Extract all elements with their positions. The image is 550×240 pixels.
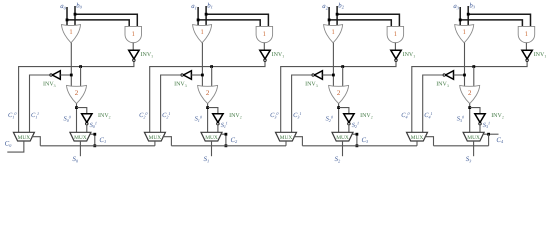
- wire b3 vertical: [467, 6, 469, 28]
- svg-text:S0: S0: [73, 156, 79, 163]
- wire INV3 input (bit 1): [191, 74, 202, 76]
- junction INV3 input (bit 0): [70, 74, 73, 77]
- svg-text:S31: S31: [483, 121, 490, 129]
- junction INV3 input (bit 1): [201, 74, 204, 77]
- wire sum mux select tap (bit 2): [352, 134, 357, 146]
- inverter INV2 (bit 3): [475, 114, 485, 123]
- junction b3: [467, 13, 470, 16]
- wire carry-in C0 to mux select: [7, 141, 24, 152]
- svg-text:C40: C40: [401, 111, 409, 119]
- wire INV3 output to carry mux (bit 1): [161, 75, 181, 132]
- wire INV3 input (bit 2): [322, 74, 333, 76]
- wire to INV2 (bit 0): [77, 108, 87, 114]
- svg-text:b2: b2: [338, 2, 344, 9]
- svg-text:S01: S01: [90, 121, 97, 129]
- mux sum (bit 3): [463, 132, 484, 141]
- wire sum mux select tap (bit 0): [90, 134, 95, 146]
- wire a3 branch to AND: [460, 20, 522, 28]
- wire and output (bit 3): [525, 43, 527, 51]
- wire xor1 output (bit 1): [201, 43, 203, 88]
- junction gate2 right input tap (bit 3): [472, 65, 475, 68]
- wire and output (bit 1): [263, 43, 265, 51]
- wire sum output S1: [211, 141, 213, 156]
- mux carry (bit 3): [407, 132, 428, 141]
- wire sum mux select tap (bit 1): [221, 134, 226, 146]
- junction tap corner (bit 0): [93, 133, 96, 136]
- svg-text:INV3: INV3: [305, 82, 318, 88]
- wire INV1 output to carry mux (bit 2): [281, 62, 396, 133]
- junction sum node (bit 3): [468, 106, 471, 109]
- svg-text:C2: C2: [231, 137, 239, 144]
- svg-text:1: 1: [263, 30, 267, 38]
- junction a2: [328, 19, 331, 22]
- inverter INV1 (bit 3): [522, 50, 532, 59]
- junction select on carry bus (bit 2): [356, 144, 359, 147]
- svg-text:1: 1: [69, 28, 73, 36]
- svg-text:INV3: INV3: [436, 82, 449, 88]
- junction b1: [205, 13, 208, 16]
- svg-text:1: 1: [331, 28, 335, 36]
- wire xor1 output (bit 3): [464, 43, 466, 88]
- wire carry mux output tap (bit 0): [32, 137, 41, 146]
- mux carry (bit 1): [144, 132, 165, 141]
- svg-text:1: 1: [462, 28, 466, 36]
- svg-text:MUX: MUX: [74, 135, 87, 141]
- svg-text:INV1: INV1: [272, 52, 285, 58]
- svg-text:C30: C30: [270, 111, 278, 119]
- wire INV3 output to carry mux (bit 0): [30, 75, 50, 132]
- svg-text:2: 2: [206, 89, 210, 97]
- wire INV3 output to carry mux (bit 3): [423, 75, 443, 132]
- wire to INV2 (bit 1): [208, 108, 218, 114]
- xor gate 1 (bit 3): [455, 25, 474, 43]
- svg-text:C1: C1: [99, 137, 106, 144]
- wire carry out C4 stub: [483, 133, 499, 135]
- xor gate 1 (bit 0): [62, 25, 81, 43]
- junction C4 tap: [487, 133, 490, 136]
- wire a2 branch to AND: [329, 20, 391, 28]
- wire to xor2 right input (bit 3): [473, 67, 475, 88]
- svg-text:MUX: MUX: [411, 135, 424, 141]
- svg-text:MUX: MUX: [467, 135, 480, 141]
- wire a1 branch to AND: [198, 20, 260, 28]
- wire xor2 output (bit 0): [76, 104, 78, 133]
- svg-text:C4: C4: [496, 137, 504, 144]
- svg-text:1: 1: [131, 30, 135, 38]
- wire b3 branch to AND: [468, 14, 530, 28]
- wire INV1 output to carry mux (bit 1): [150, 62, 265, 133]
- xor gate 2 (bit 3): [460, 85, 480, 103]
- svg-text:a0: a0: [60, 3, 66, 10]
- junction b2: [336, 13, 339, 16]
- wire sum output S3: [473, 141, 475, 156]
- svg-text:C3: C3: [362, 137, 370, 144]
- svg-text:INV2: INV2: [360, 113, 373, 119]
- junction gate2 right input tap (bit 1): [210, 65, 213, 68]
- and gate 1 (bit 0): [125, 26, 142, 42]
- wire INV3 input (bit 0): [60, 74, 71, 76]
- wire and output (bit 2): [394, 43, 396, 51]
- wire xor1 output (bit 0): [70, 43, 72, 88]
- mux carry (bit 2): [276, 132, 297, 141]
- svg-text:1: 1: [394, 30, 398, 38]
- svg-text:S11: S11: [221, 121, 228, 129]
- wire sum output S0: [79, 141, 81, 156]
- wire b0 vertical: [74, 6, 76, 28]
- svg-text:1: 1: [200, 28, 204, 36]
- svg-text:INV2: INV2: [229, 113, 242, 119]
- junction gate2 right input tap (bit 2): [341, 65, 344, 68]
- svg-text:a1: a1: [191, 3, 197, 10]
- svg-text:S3: S3: [466, 156, 472, 163]
- wire carry mux select stub (bit 3): [416, 141, 418, 146]
- wire carry mux output tap (bit 1): [163, 137, 172, 146]
- svg-text:MUX: MUX: [280, 135, 293, 141]
- wire b2 vertical: [336, 6, 338, 28]
- wire xor2 output (bit 1): [207, 104, 209, 133]
- wire a3 vertical: [459, 7, 461, 28]
- xor gate 2 (bit 2): [329, 85, 349, 103]
- svg-text:INV1: INV1: [141, 52, 154, 58]
- wire carry bus C1: [40, 145, 155, 147]
- svg-text:MUX: MUX: [149, 135, 162, 141]
- and gate 1 (bit 1): [256, 26, 273, 42]
- svg-text:MUX: MUX: [18, 135, 31, 141]
- mux sum (bit 0): [70, 132, 91, 141]
- svg-text:C20: C20: [139, 111, 147, 119]
- junction INV3 input (bit 2): [332, 74, 335, 77]
- junction a1: [197, 19, 200, 22]
- wire b0 branch to AND: [75, 14, 137, 28]
- xor gate 2 (bit 1): [198, 85, 218, 103]
- and gate 1 (bit 3): [518, 26, 535, 42]
- inverter INV2 (bit 2): [344, 114, 354, 123]
- junction sum node (bit 0): [75, 106, 78, 109]
- mux carry (bit 0): [13, 132, 34, 141]
- mux sum (bit 1): [201, 132, 222, 141]
- svg-text:C10: C10: [8, 111, 16, 119]
- svg-text:INV2: INV2: [491, 113, 504, 119]
- svg-text:a2: a2: [322, 3, 328, 10]
- junction gate2 right input tap (bit 0): [79, 65, 82, 68]
- wire carry bus C4: [434, 145, 489, 147]
- svg-text:C31: C31: [293, 111, 301, 119]
- wire xor2 output (bit 3): [469, 104, 471, 133]
- junction b0: [74, 13, 77, 16]
- xor gate 1 (bit 2): [324, 25, 343, 43]
- wire carry bus C3: [302, 145, 417, 147]
- svg-text:2: 2: [468, 89, 472, 97]
- junction select on carry bus (bit 0): [93, 144, 96, 147]
- wire to xor2 right input (bit 2): [342, 67, 344, 88]
- inverter INV1 (bit 2): [391, 50, 401, 59]
- junction select on carry bus (bit 1): [225, 144, 228, 147]
- svg-text:b0: b0: [76, 2, 82, 9]
- wire a2 vertical: [328, 7, 330, 28]
- wire to INV2 (bit 3): [470, 108, 480, 114]
- inverter INV2 (bit 1): [213, 114, 223, 123]
- svg-text:C0: C0: [5, 141, 13, 148]
- junction tap corner (bit 1): [225, 133, 228, 136]
- wire INV2 output (bit 0): [86, 125, 88, 133]
- wire sum output S2: [342, 141, 344, 156]
- svg-text:C21: C21: [162, 111, 170, 119]
- svg-text:INV3: INV3: [174, 82, 187, 88]
- mux sum (bit 2): [332, 132, 353, 141]
- wire C4 down to bus: [488, 134, 490, 146]
- inverter INV3 (bit 0): [52, 71, 60, 80]
- svg-text:C11: C11: [31, 111, 39, 119]
- wire carry mux select stub (bit 1): [154, 141, 156, 146]
- wire INV3 input (bit 3): [454, 74, 465, 76]
- svg-text:S20: S20: [326, 114, 333, 122]
- wire INV2 output (bit 3): [479, 125, 481, 133]
- xor gate 1 (bit 1): [193, 25, 212, 43]
- svg-text:a3: a3: [453, 3, 459, 10]
- svg-text:INV1: INV1: [403, 52, 416, 58]
- wire carry mux select stub (bit 2): [285, 141, 287, 146]
- junction sum node (bit 2): [337, 106, 340, 109]
- wire INV3 output to carry mux (bit 2): [292, 75, 312, 132]
- svg-text:MUX: MUX: [336, 135, 349, 141]
- wire a0 branch to AND: [67, 20, 129, 28]
- inverter INV2 (bit 0): [82, 114, 92, 123]
- svg-text:C41: C41: [424, 111, 432, 119]
- inverter INV1 (bit 1): [260, 50, 270, 59]
- wire carry bus C2: [171, 145, 286, 147]
- wire INV1 output to carry mux (bit 0): [19, 62, 134, 133]
- wire carry mux output tap (bit 3): [425, 137, 434, 146]
- svg-text:INV3: INV3: [43, 82, 56, 88]
- wire to xor2 right input (bit 0): [80, 67, 82, 88]
- svg-text:S30: S30: [457, 114, 464, 122]
- and gate 1 (bit 2): [387, 26, 404, 42]
- wire b1 vertical: [205, 6, 207, 28]
- svg-text:MUX: MUX: [205, 135, 218, 141]
- junction a3: [459, 19, 462, 22]
- xor gate 2 (bit 0): [67, 85, 87, 103]
- wire to xor2 right input (bit 1): [211, 67, 213, 88]
- junction sum node (bit 1): [206, 106, 209, 109]
- wire INV1 output to carry mux (bit 3): [412, 62, 527, 133]
- svg-text:b3: b3: [469, 2, 475, 9]
- svg-text:S21: S21: [352, 121, 359, 129]
- wire to INV2 (bit 2): [339, 108, 349, 114]
- svg-text:b1: b1: [207, 2, 213, 9]
- wire a1 vertical: [197, 7, 199, 28]
- inverter INV3 (bit 3): [446, 71, 454, 80]
- inverter INV3 (bit 1): [183, 71, 191, 80]
- wire b2 branch to AND: [337, 14, 399, 28]
- junction a0: [66, 19, 69, 22]
- svg-text:S10: S10: [195, 114, 202, 122]
- wire xor2 output (bit 2): [338, 104, 340, 133]
- wire b1 branch to AND: [206, 14, 268, 28]
- svg-text:2: 2: [337, 89, 341, 97]
- wire carry mux output tap (bit 2): [294, 137, 303, 146]
- svg-text:1: 1: [525, 30, 529, 38]
- inverter INV3 (bit 2): [314, 71, 322, 80]
- wire INV2 output (bit 2): [348, 125, 350, 133]
- svg-text:S1: S1: [204, 156, 210, 163]
- wire a0 vertical: [66, 7, 68, 28]
- svg-text:2: 2: [75, 89, 79, 97]
- junction tap corner (bit 2): [356, 133, 359, 136]
- wire xor1 output (bit 2): [332, 43, 334, 88]
- svg-text:INV2: INV2: [98, 113, 111, 119]
- wire INV2 output (bit 1): [217, 125, 219, 133]
- inverter INV1 (bit 0): [129, 50, 139, 59]
- wire and output (bit 0): [132, 43, 134, 51]
- svg-text:INV1: INV1: [534, 52, 547, 58]
- svg-text:S2: S2: [335, 156, 341, 163]
- svg-text:S00: S00: [64, 114, 71, 122]
- junction INV3 input (bit 3): [463, 74, 466, 77]
